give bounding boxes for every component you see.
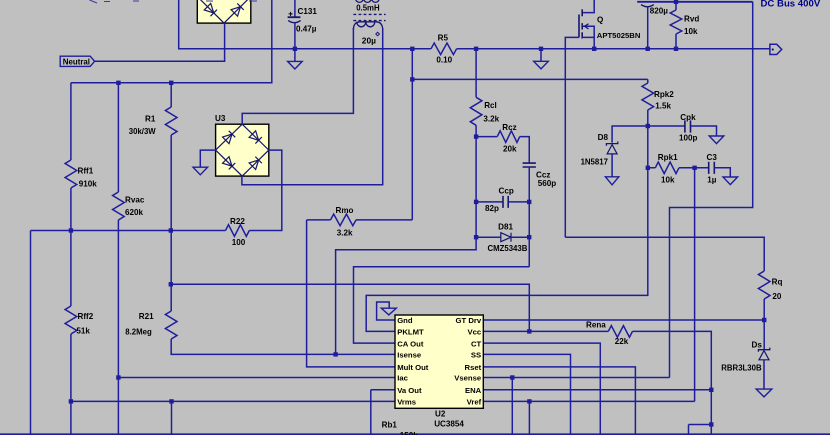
svg-text:R1: R1 xyxy=(145,114,156,123)
svg-text:10k: 10k xyxy=(684,27,698,36)
svg-text:0.10: 0.10 xyxy=(436,56,452,65)
svg-text:UC3854: UC3854 xyxy=(434,419,464,428)
svg-text:82p: 82p xyxy=(485,204,499,213)
svg-text:100p: 100p xyxy=(679,134,698,143)
svg-text:Rcl: Rcl xyxy=(484,101,497,110)
svg-text:1.5k: 1.5k xyxy=(655,102,671,111)
svg-text:Vref: Vref xyxy=(467,398,482,407)
svg-text:RBR3L30B: RBR3L30B xyxy=(721,363,762,372)
svg-text:Neutral: Neutral xyxy=(63,57,90,66)
svg-text:U2: U2 xyxy=(435,410,446,419)
svg-text:Ccz: Ccz xyxy=(536,171,550,180)
svg-text:APT5025BN: APT5025BN xyxy=(597,31,641,40)
svg-text:DC Bus 400V: DC Bus 400V xyxy=(761,0,821,9)
svg-text:D81: D81 xyxy=(498,223,513,232)
svg-text:Rena: Rena xyxy=(586,321,606,330)
svg-text:20k: 20k xyxy=(503,144,517,153)
svg-text:910k: 910k xyxy=(79,179,98,188)
svg-text:Rvac: Rvac xyxy=(125,196,145,205)
svg-text:Iac: Iac xyxy=(397,374,408,383)
svg-text:GT Drv: GT Drv xyxy=(456,316,482,325)
svg-text:PKLMT: PKLMT xyxy=(397,328,424,337)
svg-text:Rff1: Rff1 xyxy=(78,167,94,176)
svg-text:0.5mH: 0.5mH xyxy=(356,3,380,12)
svg-text:20: 20 xyxy=(772,292,782,301)
svg-text:1N5817: 1N5817 xyxy=(581,158,608,167)
svg-text:Rset: Rset xyxy=(465,363,482,372)
svg-text:Vcc: Vcc xyxy=(468,328,482,337)
svg-text:C131: C131 xyxy=(298,7,318,16)
svg-text:CT: CT xyxy=(471,339,482,348)
svg-text:Mult Out: Mult Out xyxy=(397,363,429,372)
svg-text:Rq: Rq xyxy=(772,278,783,287)
svg-text:620k: 620k xyxy=(125,208,144,217)
svg-text:D8: D8 xyxy=(598,133,609,142)
svg-text:U3: U3 xyxy=(215,114,226,123)
svg-text:51k: 51k xyxy=(76,326,90,335)
svg-text:Ccp: Ccp xyxy=(499,187,514,196)
svg-text:150k: 150k xyxy=(400,431,419,435)
svg-text:Rb1: Rb1 xyxy=(382,421,398,430)
svg-text:30k/3W: 30k/3W xyxy=(129,127,157,136)
svg-text:820µ: 820µ xyxy=(650,7,669,16)
svg-text:Cpk: Cpk xyxy=(680,113,696,122)
svg-text:3.2k: 3.2k xyxy=(337,228,353,237)
svg-text:1µ: 1µ xyxy=(707,175,717,184)
svg-text:Rcz: Rcz xyxy=(502,123,516,132)
svg-text:Gnd: Gnd xyxy=(397,316,413,325)
svg-text:R22: R22 xyxy=(230,217,245,226)
svg-text:Isense: Isense xyxy=(397,351,422,360)
svg-text:ENA: ENA xyxy=(465,386,482,395)
svg-text:C3: C3 xyxy=(707,153,718,162)
svg-text:3.2k: 3.2k xyxy=(483,114,499,123)
svg-text:Q: Q xyxy=(597,16,603,25)
svg-text:Vsense: Vsense xyxy=(454,374,482,383)
svg-text:560p: 560p xyxy=(538,179,557,188)
svg-text:20µ: 20µ xyxy=(362,36,376,46)
svg-text:8.2Meg: 8.2Meg xyxy=(125,327,152,336)
svg-text:Va Out: Va Out xyxy=(397,386,422,395)
svg-text:Rvd: Rvd xyxy=(684,15,699,24)
svg-text:CMZ5343B: CMZ5343B xyxy=(488,244,528,253)
svg-text:0.47µ: 0.47µ xyxy=(296,25,317,34)
svg-text:CA Out: CA Out xyxy=(397,339,424,348)
svg-text:Rff2: Rff2 xyxy=(78,312,94,321)
svg-text:Vrms: Vrms xyxy=(397,398,416,407)
svg-text:22k: 22k xyxy=(615,337,629,346)
svg-text:Rpk1: Rpk1 xyxy=(658,153,678,162)
svg-text:100: 100 xyxy=(232,238,246,247)
svg-text:Rmo: Rmo xyxy=(336,206,354,215)
svg-text:10k: 10k xyxy=(661,175,675,184)
svg-text:SS: SS xyxy=(471,351,481,360)
svg-text:Ds: Ds xyxy=(752,341,763,350)
svg-text:R5: R5 xyxy=(438,33,449,42)
svg-text:Rpk2: Rpk2 xyxy=(654,90,674,99)
svg-text:R21: R21 xyxy=(139,312,154,321)
